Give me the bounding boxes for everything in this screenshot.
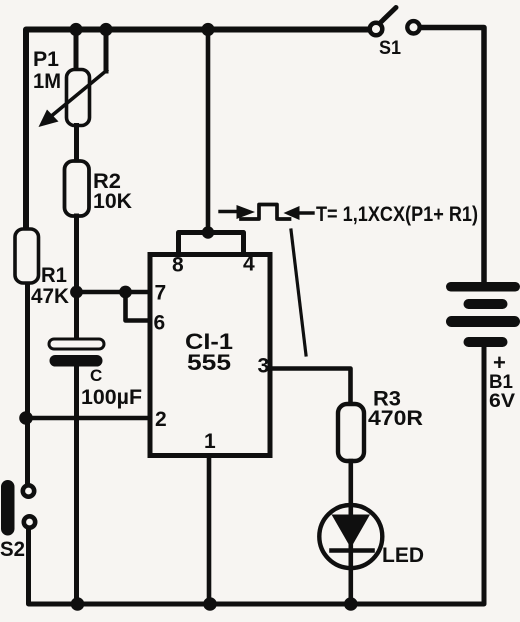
svg-text:3: 3 xyxy=(258,355,270,378)
wire: pin 3 wire to R3 xyxy=(272,369,351,405)
svg-text:1: 1 xyxy=(204,430,216,453)
switch S2 actuator bar xyxy=(1,480,15,536)
svg-text:10K: 10K xyxy=(93,190,132,213)
node: junction dot bottom rail / cap xyxy=(71,597,85,611)
LED cathode bar xyxy=(332,548,373,553)
svg-text:100µF: 100µF xyxy=(81,386,142,409)
resistor R3 xyxy=(338,404,364,461)
node: junction dot R2/cap/pin7 xyxy=(70,286,83,299)
svg-text:S2: S2 xyxy=(0,538,25,561)
potentiometer P1 wiper stub from top rail xyxy=(104,30,109,72)
node: junction dot top rail / P1 top xyxy=(69,23,82,36)
resistor R1 xyxy=(15,229,39,283)
svg-text:R1: R1 xyxy=(41,264,67,287)
wire: 555 supply wire from top rail xyxy=(206,30,211,233)
wire: pin 2 horizontal wire xyxy=(26,416,150,421)
node: junction dot top rail / 555 supply xyxy=(201,23,214,36)
svg-text:S1: S1 xyxy=(379,38,401,59)
node: junction dot left rail / pin2 xyxy=(19,411,33,425)
op-amp U1: 555 IC body CI-1 xyxy=(150,255,270,456)
battery B1 plate 3 (long) xyxy=(446,316,520,327)
svg-text:6V: 6V xyxy=(489,391,515,412)
wire: pin 8/4 top bracket xyxy=(179,233,244,254)
svg-text:555: 555 xyxy=(187,350,231,375)
switch S2 top contact xyxy=(23,485,34,496)
battery B1 plate 4 (short) xyxy=(464,337,508,347)
svg-text:P1: P1 xyxy=(33,48,59,71)
wire: P1 top lead xyxy=(74,30,79,71)
node: junction dot supply/bracket xyxy=(202,226,214,238)
switch S2 bottom contact xyxy=(24,516,35,527)
wire: top rail right segment + right rail down to battery xyxy=(421,28,484,285)
svg-text:2: 2 xyxy=(155,408,167,431)
wire: R3 to LED to bottom rail xyxy=(348,461,353,604)
node: junction dot top rail / P1 wiper xyxy=(99,23,112,36)
wire: capacitor top lead xyxy=(74,292,79,340)
svg-text:LED: LED xyxy=(382,544,424,567)
wire: left rail between R1 and S2 top contact xyxy=(25,283,30,484)
battery B1 plate 2 (short) xyxy=(464,299,508,309)
node: junction dot bottom rail / LED xyxy=(344,597,358,611)
LED circle xyxy=(319,505,382,568)
wire: pin 6 jog xyxy=(126,292,151,321)
svg-text:T= 1,1XCX(P1+ R1): T= 1,1XCX(P1+ R1) xyxy=(316,203,478,226)
wire: capacitor bottom lead to bottom rail xyxy=(74,367,79,605)
node: junction dot pin6 branch xyxy=(119,286,132,299)
node: junction dot bottom rail / pin1 xyxy=(203,597,217,611)
wire: pointer line from formula to pin 3 xyxy=(291,230,306,355)
svg-text:47K: 47K xyxy=(31,285,69,308)
wire: battery lower lead + bottom rail + lead up to S2 bottom contact xyxy=(29,346,485,604)
svg-text:8: 8 xyxy=(172,254,184,277)
LED triangle xyxy=(332,515,371,549)
wire: pin 1 lead to bottom rail xyxy=(207,457,212,605)
wire: R2 bottom lead down to pin7 junction xyxy=(74,216,79,294)
capacitor C negative plate xyxy=(50,355,103,367)
capacitor C positive plate xyxy=(49,339,104,349)
battery B1 plate 1 (long) xyxy=(446,282,520,292)
svg-text:7: 7 xyxy=(155,282,167,305)
svg-text:C: C xyxy=(90,366,102,385)
switch S1 xyxy=(370,8,420,60)
potentiometer P1 wiper diagonal arrow xyxy=(39,71,107,128)
svg-text:B1: B1 xyxy=(489,372,513,393)
svg-text:470R: 470R xyxy=(368,407,423,430)
wire: P1 to R2 xyxy=(74,126,79,162)
potentiometer P1 body xyxy=(67,70,90,126)
svg-text:1M: 1M xyxy=(33,70,61,93)
svg-text:4: 4 xyxy=(243,253,255,276)
resistor R2 xyxy=(65,161,90,216)
svg-text:6: 6 xyxy=(154,312,166,335)
wire: top rail + left rail upper segment xyxy=(26,30,367,231)
pulse waveform symbol xyxy=(220,205,313,221)
wire: pin 7 horizontal wire xyxy=(74,290,150,295)
